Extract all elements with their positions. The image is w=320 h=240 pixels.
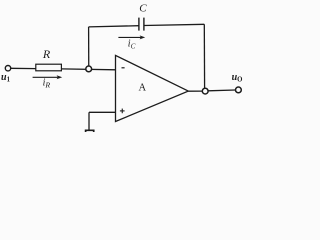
minus pin mark [122,67,125,69]
node output junction [202,88,208,94]
input terminal u1 [5,66,10,71]
label R [42,47,51,61]
label iC [128,38,136,50]
plus pin mark [120,109,125,114]
ground [86,130,94,133]
svg-text:R: R [42,47,51,61]
label u1 [1,72,11,84]
wire feedback down to output node [203,24,205,88]
wire feedback top left segment [89,26,139,27]
svg-text:C: C [139,2,147,14]
current arrow iR [33,75,63,79]
op-amp A [116,55,189,121]
wire resistor to op-amp inverting input [62,68,116,71]
wire op-amp output to node [188,90,202,92]
wire input to resistor [11,67,36,69]
label iR [43,77,51,89]
node inverting input junction [86,66,92,72]
label uO [232,72,243,84]
wire noninverting input [89,112,116,130]
svg-text:A: A [139,83,147,94]
output terminal uO [236,87,242,93]
label C [139,2,147,14]
wire feedback top right segment [144,24,204,25]
resistor R [36,64,62,71]
capacitor C [139,18,144,31]
wire node to output terminal [208,89,235,92]
label A [139,83,147,94]
current arrow iC [118,35,145,39]
wire junction up to feedback [88,27,90,66]
